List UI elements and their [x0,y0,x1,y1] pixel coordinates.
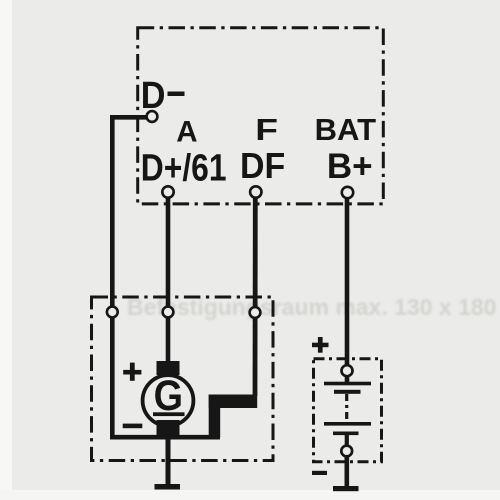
thick armature bar vertical [209,395,221,438]
wire battery to ground [344,456,349,486]
ground generator [155,484,181,490]
wire D- horizontal [110,115,150,120]
wire D+/61 vertical [166,196,171,363]
node battery terminal top [342,365,353,376]
battery cell 2 negative plate [333,432,359,436]
terminal D+/61 [162,186,173,197]
minus mark battery [312,471,327,475]
brush bottom of generator [157,420,180,436]
battery cells omitted dash-dot link [345,394,348,423]
plus mark battery [312,337,329,353]
regulator box U1 [138,28,384,204]
terminal DF [250,186,261,197]
node generator terminal right [250,307,261,318]
battery box [314,359,382,462]
plus mark generator [123,363,141,381]
wire left vertical (D- to generator) [110,115,115,437]
wire generator to ground [166,436,171,484]
label D- [141,73,185,116]
svg-text:B+: B+ [327,147,373,186]
generator G [143,371,194,426]
battery cell 1 negative plate [334,390,361,394]
wire DF vertical [253,196,258,396]
battery cell 2 positive plate [324,422,371,426]
brush top of generator [157,361,180,375]
svg-text:BAT: BAT [315,112,376,147]
svg-text:A: A [176,116,197,149]
wire battery internal [345,435,349,447]
node generator terminal left [107,307,118,318]
battery cell 1 positive plate [324,382,371,386]
wire generator bottom horizontal [110,435,220,440]
node battery terminal bottom [341,446,352,457]
minus mark generator [123,424,143,429]
svg-text:F: F [255,113,278,147]
terminal D- [147,111,158,122]
svg-text:Befestigungsraum max. 130 x 18: Befestigungsraum max. 130 x 180 m [127,294,500,320]
svg-text:D+/61: D+/61 [141,147,227,189]
svg-text:DF: DF [240,146,285,186]
node generator terminal middle [163,307,174,318]
wire BAT vertical [345,197,350,384]
thick armature bar horizontal [209,395,258,409]
generator box [92,297,274,461]
svg-text:G: G [154,371,183,420]
ground battery [333,486,359,491]
terminal B+ [342,187,353,198]
